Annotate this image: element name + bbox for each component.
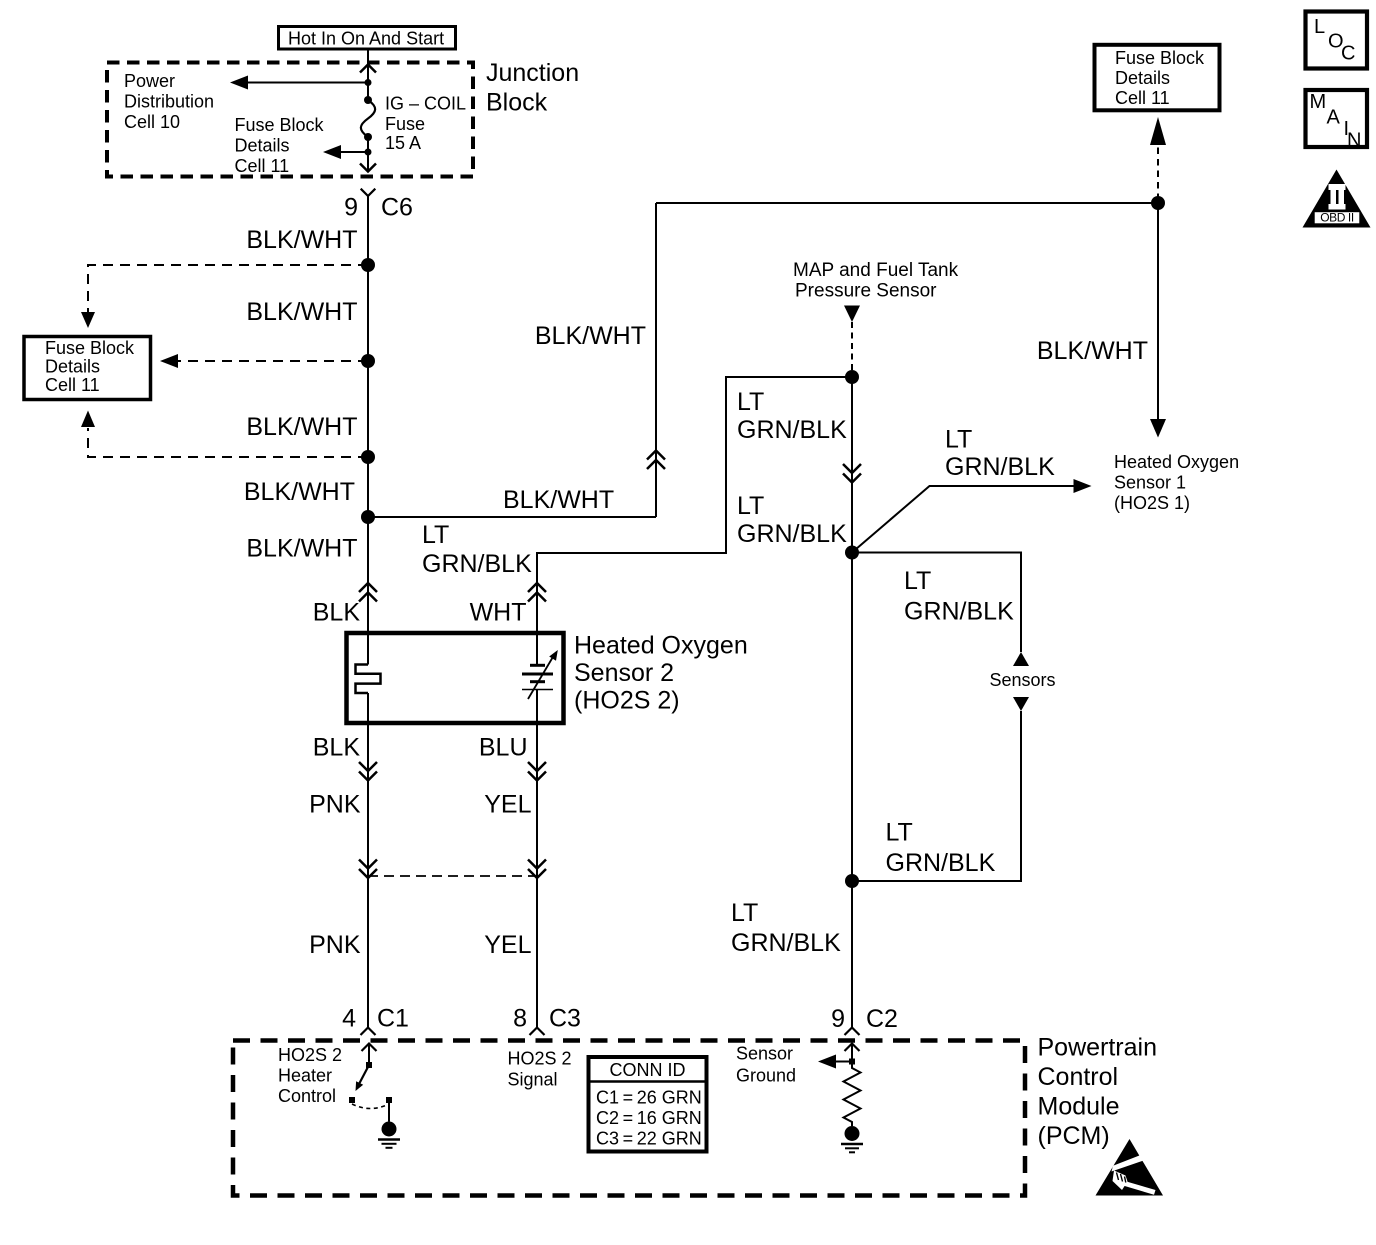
wire branch to Sensors	[852, 553, 1021, 653]
svg-text:BLK: BLK	[313, 734, 361, 762]
sensor ground arrow up	[845, 1044, 860, 1052]
wire right drop BLK/WHT to HO2S1	[1157, 203, 1159, 420]
fuse IG-COIL 15A	[364, 96, 372, 104]
svg-text:C1: C1	[377, 1005, 409, 1033]
node junction dot mid right	[845, 546, 859, 560]
svg-text:MAP and Fuel TankPressure Sens: MAP and Fuel TankPressure Sensor	[793, 260, 959, 302]
svg-text:4: 4	[342, 1005, 356, 1033]
splice chevrons up on riser	[647, 451, 665, 470]
switch blade with arrow	[359, 1065, 370, 1085]
svg-text:Hot In On And Start: Hot In On And Start	[288, 29, 444, 49]
svg-text:8: 8	[513, 1005, 527, 1033]
sensor ground left arrow	[836, 1061, 852, 1063]
dashed harness tie	[368, 875, 537, 877]
svg-text:YEL: YEL	[484, 791, 531, 819]
conn id table	[589, 1057, 707, 1152]
MAIN reference box	[1306, 90, 1368, 152]
ground G2	[845, 1126, 860, 1141]
svg-text:GRN/BLK: GRN/BLK	[945, 453, 1055, 481]
wire below sensor cell	[536, 690, 538, 1028]
svg-text:M: M	[1310, 91, 1327, 113]
splice chevrons up above HO2S2 right	[528, 583, 546, 602]
dashed wire from MAP sensor	[851, 322, 853, 371]
node junction dot lower right	[845, 874, 859, 888]
switch common contact	[366, 1062, 372, 1068]
dashed link up to fuse block details (top right)	[1157, 147, 1159, 200]
wire riser BLK/WHT	[655, 203, 657, 517]
sensor cell plates inside HO2S2	[530, 664, 545, 667]
svg-text:YEL: YEL	[484, 931, 531, 959]
OBD II symbol	[1303, 170, 1371, 228]
dashed reference link 1 to fuse block	[88, 265, 368, 312]
node junction dot 2	[361, 354, 375, 368]
variable arrow through sensor cell	[528, 656, 554, 699]
junction block J1 dashed box	[107, 63, 473, 177]
wire to ground	[388, 1103, 390, 1122]
switch contact right	[386, 1097, 392, 1103]
splice chevrons up above HO2S2 left	[359, 583, 377, 602]
harness pass chevrons left	[359, 860, 377, 879]
svg-text:LT: LT	[945, 426, 972, 454]
svg-text:BLK/WHT: BLK/WHT	[246, 413, 357, 441]
ESD symbol	[1096, 1139, 1164, 1196]
wire from Hot box into Junction Block	[367, 49, 369, 63]
svg-text:WHT: WHT	[470, 599, 527, 627]
Hot In On And Start box	[279, 27, 456, 50]
svg-text:Sensors: Sensors	[990, 670, 1056, 690]
splice chevrons down on right wire	[843, 464, 861, 483]
wire diagonal to HO2S1	[852, 486, 1074, 553]
heated oxygen sensor 2 box	[347, 633, 564, 723]
svg-text:N: N	[1347, 130, 1361, 152]
svg-text:BLK/WHT: BLK/WHT	[246, 226, 357, 254]
svg-text:BLU: BLU	[479, 734, 528, 762]
wire horizontal BLK/WHT branch	[368, 516, 656, 518]
splice chevrons down below box right	[528, 762, 546, 781]
svg-text:BLK/WHT: BLK/WHT	[1037, 337, 1148, 365]
svg-text:OBD II: OBD II	[1320, 211, 1354, 225]
fuse block details box (left)	[24, 337, 151, 400]
svg-text:C1 = 26 GRNC2 = 16 GRNC3 = 22: C1 = 26 GRNC2 = 16 GRNC3 = 22 GRN	[596, 1088, 702, 1149]
svg-text:BLK/WHT: BLK/WHT	[535, 322, 646, 350]
connector 9 C6	[361, 189, 376, 196]
svg-text:9: 9	[344, 194, 358, 222]
dashed reference link 3 up arrow to box bottom	[88, 428, 368, 457]
heater element inside HO2S2	[356, 665, 381, 694]
node junction dot top right	[1151, 196, 1165, 210]
svg-text:L: L	[1314, 16, 1325, 38]
harness pass chevrons right	[528, 860, 546, 879]
node junction dot 3	[361, 450, 375, 464]
powertrain control module dashed box	[233, 1041, 1025, 1196]
svg-text:C2: C2	[866, 1005, 898, 1033]
svg-text:BLK/WHT: BLK/WHT	[503, 486, 614, 514]
svg-text:C6: C6	[381, 194, 413, 222]
wire with up arrow at fuse top	[360, 65, 376, 73]
svg-text:PNK: PNK	[309, 791, 361, 819]
wire below fuse with down arrow	[367, 137, 369, 172]
svg-text:BLK/WHT: BLK/WHT	[246, 298, 357, 326]
ground G1	[382, 1122, 397, 1137]
svg-text:BLK: BLK	[313, 599, 361, 627]
wire through heater to PCM	[367, 693, 369, 1027]
svg-text:BLK/WHT: BLK/WHT	[244, 478, 355, 506]
splice chevrons down below box left	[359, 762, 377, 781]
wire top horizontal	[656, 202, 1158, 204]
node junction dot 4	[361, 510, 375, 524]
switch contact left	[349, 1097, 355, 1103]
resistor R1	[844, 1062, 861, 1127]
svg-text:PNK: PNK	[309, 931, 361, 959]
dashed reference link 2 arrow into box	[178, 360, 368, 362]
wire arrow to Power Distribution	[246, 82, 368, 84]
node junction dot MAP	[845, 370, 859, 384]
svg-text:9: 9	[831, 1005, 845, 1033]
wire arrow to Fuse Block Details	[341, 151, 368, 153]
driver switch Q1 arrow up	[362, 1044, 377, 1052]
wire left main vertical (BLK/WHT)	[367, 196, 369, 665]
LOC reference box	[1306, 12, 1368, 69]
svg-text:BLK/WHT: BLK/WHT	[246, 535, 357, 563]
svg-text:CONN ID: CONN ID	[610, 1060, 686, 1080]
node junction dot 1	[361, 258, 375, 272]
svg-text:C: C	[1341, 43, 1355, 65]
wire branch to center (HO2S2 signal feed)	[537, 377, 852, 665]
fuse block details box (top right)	[1095, 45, 1220, 111]
switch travel dashed arc	[352, 1104, 389, 1109]
wire right main vertical LT GRN/BLK	[851, 377, 853, 1027]
svg-text:A: A	[1327, 106, 1341, 128]
arrow down from MAP sensor	[844, 306, 860, 323]
svg-text:C3: C3	[549, 1005, 581, 1033]
